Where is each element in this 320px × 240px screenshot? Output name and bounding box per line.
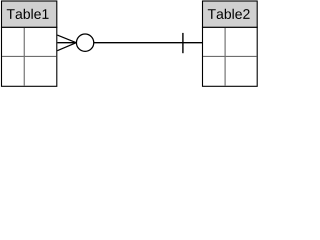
relationship crow's foot bottom prong [57, 43, 76, 51]
entity Table1 body [2, 27, 57, 86]
entity Table1 header [2, 1, 57, 27]
entity Table1 column divider [23, 28, 25, 86]
relationship wire to Table2 [94, 42, 203, 44]
relationship cardinality-one bar [182, 33, 184, 53]
relationship optionality circle [76, 34, 93, 51]
entity Table1 title [7, 9, 49, 19]
entity Table2 title [208, 9, 250, 19]
relationship crow's foot top prong [57, 35, 76, 43]
entity Table2 row divider [203, 55, 257, 57]
entity Table2 column divider [224, 28, 226, 86]
entity Table1 row divider [2, 55, 57, 57]
entity Table2 body [203, 27, 258, 86]
entity Table2 header [203, 1, 258, 27]
relationship crow's foot middle prong / wire [57, 42, 76, 44]
